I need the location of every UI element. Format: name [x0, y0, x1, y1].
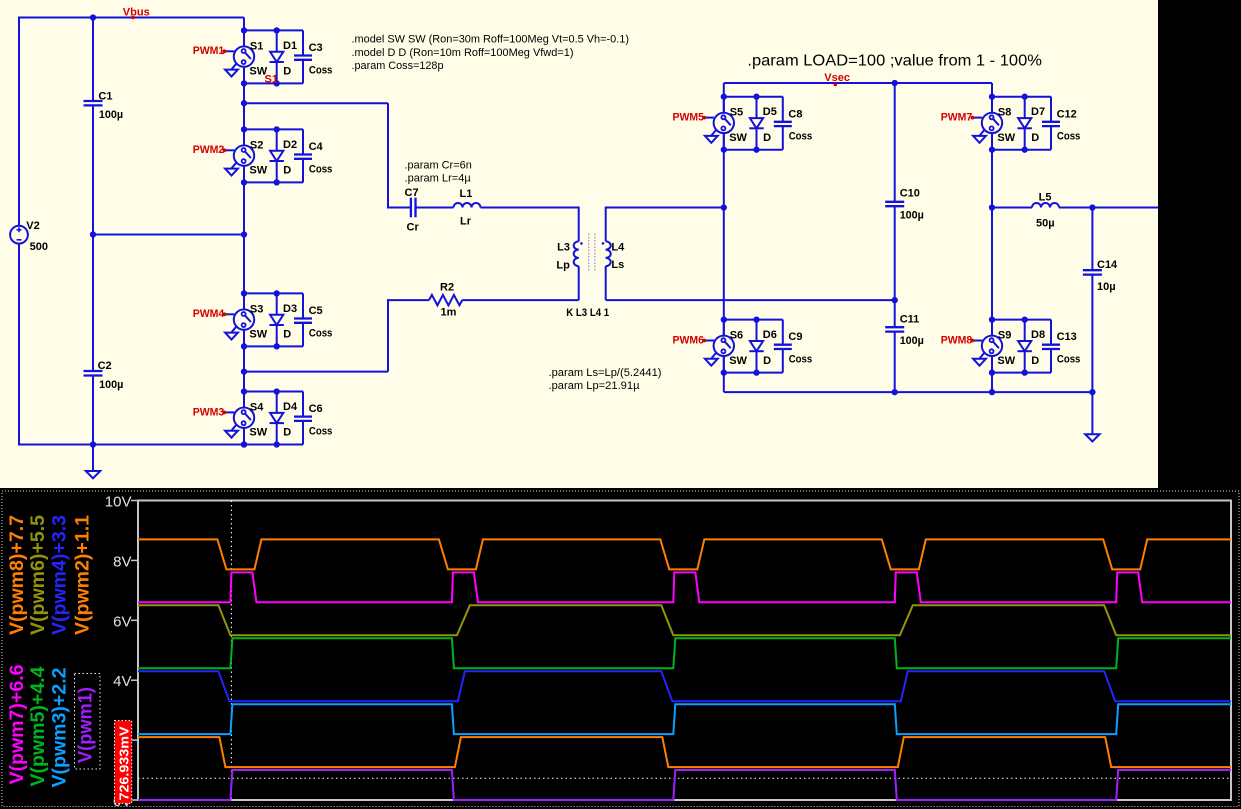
svg-text:Ls: Ls [611, 259, 624, 271]
svg-text:50µ: 50µ [1036, 218, 1055, 230]
svg-text:PWM5: PWM5 [673, 112, 705, 124]
svg-text:V(pwm6)+5.5: V(pwm6)+5.5 [27, 515, 49, 635]
svg-text:C6: C6 [309, 403, 323, 415]
svg-text:D2: D2 [283, 139, 297, 151]
svg-text:Vbus: Vbus [123, 7, 150, 19]
svg-text:S9: S9 [998, 330, 1011, 342]
wire C2 branch lower [92, 376, 94, 445]
svg-text:.param LOAD=100 ;value from 1: .param LOAD=100 ;value from 1 - 100% [747, 53, 1042, 70]
wire secondary left rail [723, 83, 725, 113]
svg-text:D5: D5 [763, 106, 777, 118]
ground at bottom rail [92, 445, 94, 472]
svg-text:.model SW SW (Ron=30m Roff=100: .model SW SW (Ron=30m Roff=100Meg Vt=0.5… [352, 34, 630, 46]
voltage source V2 [10, 226, 28, 244]
svg-text:S2: S2 [250, 139, 263, 151]
cursor value flag 726.933mV [115, 721, 132, 804]
svg-text:.param Ls=Lp/(5.2441): .param Ls=Lp/(5.2441) [549, 367, 662, 379]
node dots cell S3 [241, 290, 247, 296]
capacitor C5 [302, 293, 304, 318]
inductor L4 transformer secondary [606, 241, 611, 249]
svg-text:Coss: Coss [309, 64, 333, 76]
diode D5 [756, 97, 758, 118]
cursor vertical dotted line [230, 501, 232, 801]
svg-text:500: 500 [30, 241, 48, 253]
trace V(pwm8)+7.7 [138, 539, 1231, 569]
capacitor C10 [885, 201, 904, 203]
wire cell bottom S9 [992, 372, 1051, 374]
wire cell top S3 [244, 292, 303, 294]
resistor R2 [429, 295, 462, 305]
ground secondary [1091, 392, 1093, 434]
ground of S3 control [232, 326, 237, 332]
svg-text:D: D [283, 165, 291, 177]
node dots cell S6 [721, 316, 727, 322]
diode D3 [276, 293, 278, 314]
svg-text:100µ: 100µ [900, 210, 924, 222]
svg-text:C11: C11 [900, 314, 920, 326]
wire cell bottom S2 [244, 181, 303, 183]
diode D6 [756, 320, 758, 341]
ground of S5 control [711, 130, 716, 136]
diode D8 [1024, 320, 1026, 341]
wire C14 branch lower [1091, 275, 1093, 393]
wire C1 branch upper [92, 18, 94, 102]
waveform pane dotted border [2, 491, 1239, 807]
wire cell top S5 [724, 96, 783, 98]
node dots cell S1 [241, 27, 247, 33]
node dots cell S4 [241, 388, 247, 394]
capacitor C13 [1050, 320, 1052, 345]
svg-text:S1: S1 [250, 40, 263, 52]
capacitor C6 [302, 392, 304, 417]
svg-text:.param Cr=6n: .param Cr=6n [405, 160, 472, 172]
svg-text:L4: L4 [611, 241, 625, 253]
diode D4 [276, 392, 278, 413]
svg-text:D: D [763, 132, 771, 144]
svg-text:Lr: Lr [460, 216, 472, 228]
svg-text:100µ: 100µ [900, 335, 924, 347]
svg-text:C3: C3 [309, 42, 323, 54]
transformer core [588, 234, 590, 273]
ground of S1 control [232, 63, 237, 69]
svg-text:D: D [763, 355, 771, 367]
wire C2 branch upper [92, 235, 94, 372]
node junction S1-S2 midpoint [241, 100, 247, 106]
svg-text:L5: L5 [1039, 192, 1052, 204]
node junction bottom rail / C2 [90, 441, 96, 447]
wire cell bottom S3 [244, 345, 303, 347]
wire primary switch rail [243, 18, 245, 47]
svg-text:Cr: Cr [407, 222, 420, 234]
wire transformer bottom to cap midpoint [606, 299, 895, 301]
svg-text:Coss: Coss [309, 163, 333, 175]
svg-text:D7: D7 [1031, 106, 1045, 118]
switch S9 [982, 336, 1002, 356]
ground of S2 control [232, 162, 237, 168]
selection box around V(pwm1) label [75, 674, 101, 770]
capacitor C8 [782, 97, 784, 122]
svg-text:4V: 4V [113, 673, 131, 690]
wire cell top S4 [244, 391, 303, 393]
switch S6 [714, 336, 734, 356]
switch S3 [234, 309, 254, 329]
svg-text:SW: SW [249, 427, 267, 439]
schematic background pane [0, 0, 1158, 488]
svg-text:C13: C13 [1057, 331, 1077, 343]
svg-text:.model D D (Ron=10m Roff=100Me: .model D D (Ron=10m Roff=100Meg Vfwd=1) [352, 47, 574, 59]
svg-text:C4: C4 [309, 141, 324, 153]
wire S8-S9 rail [991, 83, 993, 113]
svg-text:D: D [283, 427, 291, 439]
svg-text:Coss: Coss [309, 426, 333, 438]
svg-text:C5: C5 [309, 305, 323, 317]
diode D2 [276, 129, 278, 150]
wire L5 to output [1059, 207, 1158, 209]
svg-text:Coss: Coss [789, 131, 813, 143]
wire left rail lower [18, 244, 20, 446]
svg-text:8V: 8V [113, 553, 131, 570]
wire transformer top to S5-S6 midpoint [606, 207, 724, 209]
wire tap S1-S2 midpoint vertical [387, 103, 389, 208]
node junction C10-C11 midpoint [892, 297, 898, 303]
diode D7 [1024, 97, 1026, 118]
wire C1 branch lower [92, 105, 94, 234]
svg-text:D: D [1031, 355, 1039, 367]
switch S5 [714, 113, 734, 133]
wire cell bottom S4 [244, 444, 303, 446]
svg-text:S4: S4 [250, 401, 264, 413]
wire S8-S9 midpoint to L5 [992, 207, 1032, 209]
plot frame [138, 501, 1231, 801]
wire S3S4-midpoint to R2 [388, 299, 429, 301]
wire cell bottom S6 [724, 372, 783, 374]
inductor L1 [454, 203, 463, 208]
wire tap S3-S4 midpoint vertical [387, 299, 389, 372]
node junction S3-S4 midpoint [241, 368, 247, 374]
node junction bottom rail / S9 [989, 389, 995, 395]
svg-text:C7: C7 [405, 187, 419, 199]
switch S4 [234, 408, 254, 428]
svg-text:SW: SW [997, 355, 1015, 367]
svg-text:C12: C12 [1057, 108, 1077, 120]
trace V(pwm2)+1.1 [138, 737, 1231, 767]
svg-text:D6: D6 [763, 329, 777, 341]
wire C14 branch upper [1091, 208, 1093, 271]
svg-text:D: D [283, 66, 291, 78]
node dots cell S9 [989, 316, 995, 322]
svg-text:D1: D1 [283, 40, 297, 52]
svg-text:Coss: Coss [309, 327, 333, 339]
node dots cell S8 [989, 94, 995, 100]
capacitor C4 [302, 129, 304, 154]
wire secondary bottom rail [724, 391, 1093, 393]
wire secondary top rail Vsec [724, 82, 992, 84]
svg-text:D: D [283, 329, 291, 341]
svg-text:K L3 L4 1: K L3 L4 1 [566, 307, 609, 319]
svg-text:.param Lr=4µ: .param Lr=4µ [405, 173, 472, 185]
svg-text:V(pwm5)+4.4: V(pwm5)+4.4 [27, 666, 49, 786]
node junction bottom rail / C11 [892, 389, 898, 395]
svg-text:V(pwm4)+3.3: V(pwm4)+3.3 [49, 515, 71, 635]
svg-text:100µ: 100µ [99, 109, 123, 121]
node junction output / C14 [1089, 204, 1095, 210]
trace V(pwm6)+5.5 [138, 605, 1231, 635]
wire C10-C11 middle [894, 206, 896, 327]
svg-text:V(pwm7)+6.6: V(pwm7)+6.6 [6, 664, 28, 784]
svg-text:Coss: Coss [789, 354, 813, 366]
inductor L3 transformer primary [574, 241, 579, 249]
y axis ticks and labels [131, 500, 138, 502]
wire C11 lower [894, 332, 896, 393]
capacitor C3 [302, 30, 304, 55]
svg-text:S6: S6 [730, 330, 743, 342]
svg-text:Lp: Lp [556, 259, 570, 271]
svg-text:L1: L1 [460, 188, 473, 200]
svg-text:S8: S8 [998, 107, 1011, 119]
switch S1 [234, 46, 254, 66]
svg-text:C9: C9 [788, 331, 802, 343]
wire transformer secondary bottom lead [605, 266, 607, 300]
svg-text:PWM7: PWM7 [941, 112, 973, 124]
svg-text:.param Coss=128p: .param Coss=128p [352, 60, 444, 72]
wire C7 to L1 [416, 207, 454, 209]
svg-text:D3: D3 [283, 303, 297, 315]
wire tap S3-S4 midpoint horizontal [244, 371, 388, 373]
svg-text:PWM1: PWM1 [193, 45, 225, 57]
node junction S5-S6 midpoint [721, 204, 727, 210]
wire top rail Vbus [19, 17, 244, 19]
trace V(pwm5)+4.4 [138, 638, 1231, 668]
svg-text:S3: S3 [250, 303, 263, 315]
wire R2 to transformer [462, 299, 579, 301]
svg-text:V2: V2 [26, 220, 39, 232]
svg-text:C2: C2 [98, 360, 112, 372]
wire bottom rail [19, 444, 303, 446]
capacitor C7 [410, 198, 412, 218]
svg-text:R2: R2 [440, 282, 454, 294]
svg-text:D8: D8 [1031, 329, 1045, 341]
svg-text:V(pwm2)+1.1: V(pwm2)+1.1 [72, 515, 94, 635]
wire cell bottom S1 [244, 82, 303, 84]
svg-text:D: D [1031, 132, 1039, 144]
svg-text:D4: D4 [283, 401, 298, 413]
svg-text:SW: SW [729, 132, 747, 144]
switch S8 [982, 113, 1002, 133]
wire transformer primary bottom lead [578, 266, 580, 300]
wire mid rail [93, 234, 244, 236]
node junction mid rail / switch rail [241, 231, 247, 237]
node dots cell S2 [241, 126, 247, 132]
capacitor C11 [885, 326, 904, 328]
svg-text:PWM3: PWM3 [193, 406, 225, 418]
svg-text:S5: S5 [730, 107, 743, 119]
wire cell top S9 [992, 319, 1051, 321]
wire L1 to transformer [481, 207, 579, 209]
node junction Vsec rail / C10 [892, 80, 898, 86]
trace V(pwm1) [138, 770, 1231, 800]
svg-text:C8: C8 [788, 108, 802, 120]
svg-text:.param Lp=21.91µ: .param Lp=21.91µ [549, 380, 641, 392]
svg-text:SW: SW [249, 329, 267, 341]
svg-text:Coss: Coss [1057, 354, 1081, 366]
trace V(pwm7)+6.6 [138, 572, 1231, 602]
capacitor C14 [1083, 269, 1102, 271]
svg-text:10µ: 10µ [1097, 281, 1116, 293]
svg-text:C1: C1 [98, 91, 112, 103]
trace V(pwm4)+3.3 [138, 671, 1231, 701]
svg-text:L3: L3 [557, 241, 570, 253]
wire tap S1-S2 midpoint horizontal [244, 102, 388, 104]
node junction mid rail / C1-C2 [90, 231, 96, 237]
cursor horizontal dotted line [138, 777, 1231, 779]
svg-text:C10: C10 [900, 188, 920, 200]
wire cell top S1 [244, 29, 303, 31]
wire cell top S2 [244, 128, 303, 130]
ground of S8 control [980, 130, 985, 136]
wire cell bottom S5 [724, 149, 783, 151]
wire cell top S6 [724, 319, 783, 321]
wire left rail upper [18, 17, 20, 227]
svg-text:S1: S1 [265, 74, 278, 86]
trace V(pwm3)+2.2 [138, 704, 1231, 734]
svg-text:PWM2: PWM2 [193, 144, 225, 156]
wire cell top S8 [992, 96, 1051, 98]
node dots cell S5 [721, 94, 727, 100]
capacitor C9 [782, 320, 784, 345]
wire transformer secondary top lead [605, 207, 607, 242]
svg-text:PWM4: PWM4 [193, 308, 225, 320]
inductor L5 [1032, 203, 1041, 208]
node junction bottom rail / S4 [241, 441, 247, 447]
wire cell bottom S8 [992, 149, 1051, 151]
svg-text:SW: SW [729, 355, 747, 367]
node junction S8-S9 midpoint [989, 204, 995, 210]
svg-text:10V: 10V [105, 494, 132, 511]
svg-text:V(pwm1): V(pwm1) [75, 687, 97, 763]
node junction top rail / C1 [90, 14, 96, 20]
svg-text:V(pwm8)+7.7: V(pwm8)+7.7 [6, 515, 28, 635]
svg-text:C14: C14 [1097, 259, 1118, 271]
diode D1 [276, 30, 278, 51]
capacitor C1 [84, 100, 103, 102]
ground of S9 control [980, 352, 985, 358]
node junction bottom rail / ground [1089, 389, 1095, 395]
svg-text:726.933mV: 726.933mV [117, 726, 131, 801]
capacitor C2 [84, 370, 103, 372]
svg-text:SW: SW [249, 165, 267, 177]
svg-text:PWM8: PWM8 [941, 334, 973, 346]
ground of S4 control [232, 424, 237, 430]
wire to C7 [388, 207, 411, 209]
svg-text:SW: SW [997, 132, 1015, 144]
svg-text:100µ: 100µ [99, 379, 123, 391]
svg-text:V(pwm3)+2.2: V(pwm3)+2.2 [49, 667, 71, 787]
svg-text:Coss: Coss [1057, 131, 1081, 143]
wire transformer primary top lead [578, 207, 580, 242]
ground of S6 control [711, 352, 716, 358]
svg-text:6V: 6V [113, 613, 131, 630]
switch S2 [234, 145, 254, 165]
capacitor C12 [1050, 97, 1052, 122]
svg-text:1m: 1m [441, 307, 457, 319]
svg-text:Vsec: Vsec [824, 72, 850, 84]
svg-text:PWM6: PWM6 [673, 334, 705, 346]
wire C10 branch upper [894, 82, 896, 202]
